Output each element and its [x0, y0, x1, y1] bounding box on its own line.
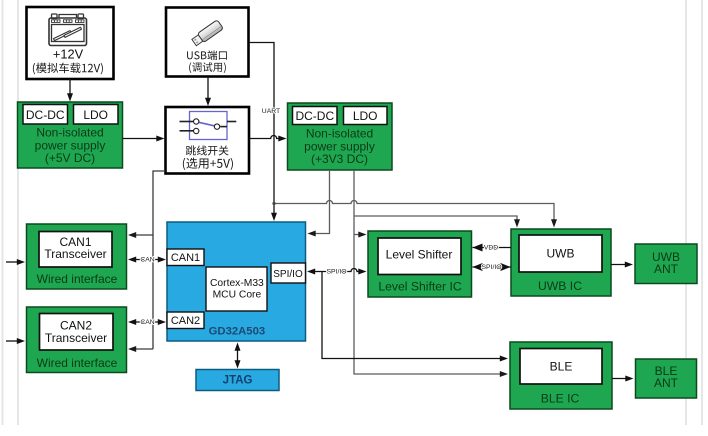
- svg-text:MCU Core: MCU Core: [213, 290, 262, 301]
- svg-text:JTAG: JTAG: [223, 375, 253, 387]
- wire CAN bus 2 (transceiver to MCU CAN2): [128, 319, 166, 325]
- svg-text:Transceiver: Transceiver: [45, 331, 107, 345]
- page margin line right outer: [701, 0, 703, 425]
- wire 3V3 rail DC-DC tap to MCU: [308, 170, 330, 237]
- svg-text:Wired interface: Wired interface: [37, 356, 118, 370]
- wire +12V to +5V supply: [67, 79, 73, 102]
- DC-DC converter (3V3 supply): [293, 107, 338, 125]
- BLE IC block: [510, 342, 612, 409]
- svg-text:GD32A503: GD32A503: [209, 326, 266, 338]
- wire external CAN2 input: [6, 338, 25, 344]
- jumper switch block (optional +5V): [166, 107, 250, 174]
- wire jumper switch to +3V3 supply (hop over UART): [249, 136, 287, 142]
- wire 3V3 line A to UWB (hops over rails): [272, 201, 557, 228]
- USB port block (debug): [166, 8, 249, 77]
- svg-text:Level Shifter: Level Shifter: [386, 248, 453, 262]
- battery icon: [49, 14, 87, 46]
- svg-text:Wired interface: Wired interface: [37, 272, 118, 286]
- JTAG connector block: [196, 370, 279, 391]
- wire SPI/IO level shifter to UWB (bidirectional): [473, 263, 512, 271]
- svg-text:DC-DC: DC-DC: [295, 109, 334, 123]
- svg-text:SPI/IO: SPI/IO: [481, 264, 501, 271]
- svg-text:DC-DC: DC-DC: [26, 108, 65, 122]
- BLE antenna block: [636, 359, 697, 398]
- svg-text:SPI/IO: SPI/IO: [326, 269, 346, 276]
- svg-text:VDD: VDD: [484, 245, 498, 252]
- svg-text:UWB IC: UWB IC: [538, 279, 582, 293]
- svg-text:ANT: ANT: [654, 376, 679, 390]
- CAN1 peripheral box: [167, 249, 204, 266]
- svg-text:Non-isolated: Non-isolated: [36, 126, 103, 140]
- DC-DC converter (5V supply): [23, 105, 68, 125]
- wire VDD level shifter to UWB: [473, 244, 512, 252]
- svg-text:Level Shifter IC: Level Shifter IC: [378, 280, 462, 294]
- svg-text:BLE IC: BLE IC: [541, 391, 580, 405]
- MCU block U1 GD32A503: [167, 222, 306, 341]
- svg-text:CAN2: CAN2: [171, 315, 200, 327]
- svg-text:LDO: LDO: [83, 108, 108, 122]
- svg-text:UART: UART: [262, 108, 280, 115]
- wire JTAG to MCU (bidirectional): [235, 343, 241, 369]
- wire +5V supply to jumper switch: [123, 136, 165, 142]
- CAN1 transceiver block (wired interface): [27, 224, 127, 289]
- Cortex-M33 MCU core box: [206, 267, 267, 311]
- page margin line left inner: [17, 0, 19, 425]
- page margin line right inner: [685, 0, 687, 425]
- svg-text:CAN1: CAN1: [171, 252, 200, 264]
- svg-text:BLE: BLE: [550, 360, 573, 374]
- CAN2 peripheral box: [167, 312, 204, 329]
- power supply block +3V3 DC (non-isolated): [288, 103, 393, 170]
- power source block +12V (simulated vehicle 12V): [27, 7, 114, 79]
- svg-text:ANT: ANT: [654, 262, 679, 276]
- CAN2 transceiver block (wired interface): [27, 307, 127, 373]
- UWB antenna block: [635, 244, 697, 284]
- svg-text:SPI/IO: SPI/IO: [273, 269, 303, 280]
- UWB IC block: [511, 229, 611, 296]
- page margin line left outer: [2, 0, 4, 425]
- svg-text:Transceiver: Transceiver: [44, 247, 106, 261]
- wire SPI/IO branch to BLE: [322, 272, 508, 362]
- svg-text:Non-isolated: Non-isolated: [306, 127, 373, 141]
- svg-text:CAN: CAN: [140, 319, 154, 326]
- power supply block +5V DC (non-isolated): [18, 102, 123, 168]
- svg-text:(+3V3 DC): (+3V3 DC): [311, 152, 368, 166]
- switch icon: [180, 112, 237, 140]
- wire +5V feed from jumper to CAN transceivers: [128, 171, 166, 352]
- LDO regulator (5V supply): [74, 105, 119, 125]
- svg-text:CAN: CAN: [140, 257, 154, 264]
- svg-text:+12V: +12V: [53, 47, 84, 62]
- LDO regulator (3V3 supply): [344, 107, 388, 125]
- USB flash drive icon: [191, 20, 223, 47]
- level shifter IC block: [368, 231, 472, 297]
- wire UART from USB to MCU: [249, 43, 278, 222]
- SPI/IO peripheral box: [271, 263, 306, 283]
- svg-text:LDO: LDO: [353, 109, 378, 123]
- wire USB to jumper switch: [205, 77, 211, 107]
- wire SPI/IO MCU to level shifter (hop over 3V3 rail): [307, 269, 367, 275]
- wire 3V3 rail LDO tap (to UWB, level shifter, BLE): [354, 170, 520, 377]
- wire UWB to UWB antenna: [611, 262, 633, 268]
- svg-text:Cortex-M33: Cortex-M33: [210, 278, 264, 289]
- wire BLE to BLE antenna: [612, 376, 634, 382]
- wire external CAN1 input: [6, 259, 25, 265]
- svg-text:UWB: UWB: [547, 247, 575, 261]
- wire CAN bus 1 (transceiver to MCU CAN1): [128, 257, 166, 263]
- svg-text:(+5V DC): (+5V DC): [45, 151, 95, 165]
